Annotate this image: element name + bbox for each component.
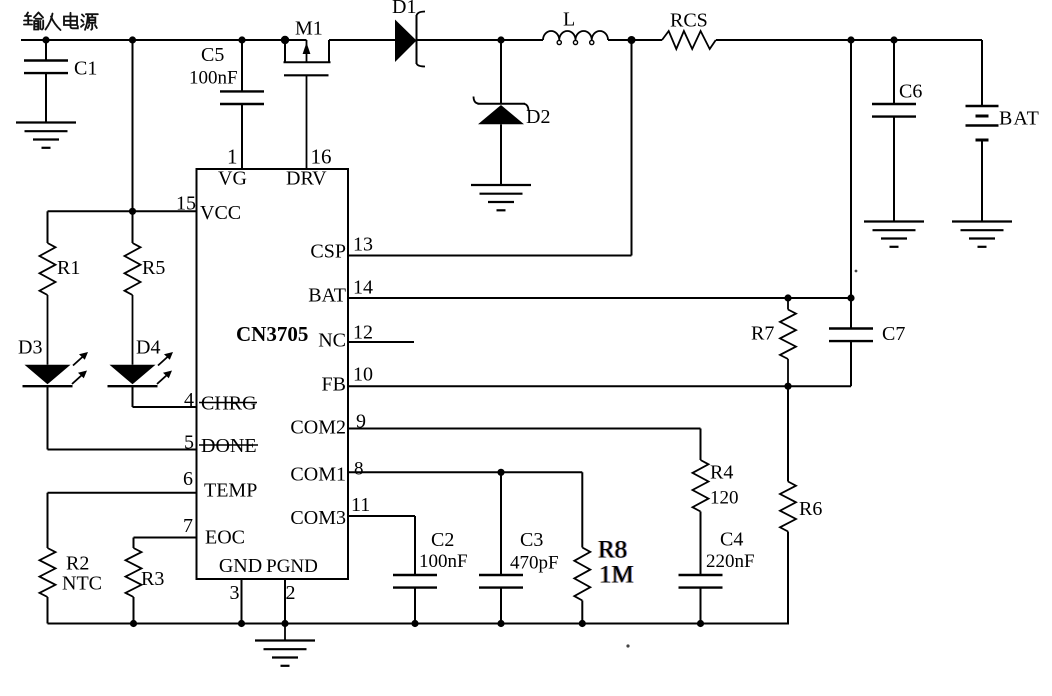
node: R8 on rail (579, 620, 586, 627)
svg-text:BAT: BAT (308, 285, 346, 307)
ground: main ground symbol below PGND (255, 624, 315, 666)
svg-text:CSP: CSP (310, 241, 346, 263)
wire: CSP pin 13 to sense node (348, 40, 632, 256)
resistor R7 (751, 298, 796, 386)
inductor L (543, 9, 608, 45)
diode D2 (schottky to ground) (474, 40, 551, 185)
svg-text:7: 7 (183, 515, 193, 537)
resistor R1 (40, 211, 81, 364)
net label 输入电源 (input power), drawn strokes (24, 13, 98, 31)
ground for BAT (952, 222, 1012, 247)
svg-text:COM3: COM3 (290, 507, 346, 529)
node: M1 source junction (281, 36, 289, 44)
node: C1 junction (42, 36, 49, 43)
svg-text:D2: D2 (526, 106, 550, 128)
LED D3 (18, 337, 88, 387)
svg-text:14: 14 (353, 277, 373, 299)
svg-text:C4: C4 (720, 529, 743, 551)
svg-text:PGND: PGND (266, 556, 318, 577)
wire: battery node down to BAT pin line (850, 40, 852, 298)
node: C3 on rail (497, 620, 504, 627)
resistor R6 (780, 386, 822, 623)
resistor R5 (125, 211, 166, 364)
svg-text:RCS: RCS (670, 10, 708, 32)
svg-text:8: 8 (354, 459, 364, 480)
node: VCC junction on pin 15 wire (129, 208, 136, 215)
svg-text:C5: C5 (201, 44, 224, 66)
wire: COM2 pin 9 line (348, 428, 701, 430)
node: C3 top junction on COM1 (497, 469, 504, 476)
svg-text:220nF: 220nF (706, 551, 755, 572)
svg-text:D4: D4 (136, 337, 160, 359)
ground for D2 (471, 185, 531, 210)
LED D4 (108, 337, 174, 387)
svg-text:1: 1 (227, 145, 238, 169)
node: R7 bottom / R6 top on FB line (784, 383, 791, 390)
svg-text:16: 16 (311, 145, 332, 169)
svg-text:EOC: EOC (205, 527, 245, 549)
svg-text:R3: R3 (141, 568, 164, 590)
wire: M1 drain to D1 anode (329, 39, 396, 41)
pin 1 VG label (218, 145, 247, 190)
wire: D4 cathode to CHRG pin 4 (133, 386, 197, 407)
svg-text:C1: C1 (74, 58, 97, 80)
svg-text:120: 120 (710, 488, 739, 509)
wire: input rail down to VCC pin 15 (132, 40, 134, 211)
node: BAT wire junction (847, 36, 854, 43)
svg-text:11: 11 (351, 494, 370, 516)
pin 15 VCC label (176, 193, 241, 225)
capacitor C2 100nF (393, 529, 468, 624)
pin 3 GND label (219, 555, 262, 604)
capacitor C6 (872, 40, 922, 222)
pin 8 COM1 label (290, 459, 363, 486)
svg-text:R1: R1 (57, 257, 80, 279)
pin 12 NC label (318, 322, 373, 352)
wire: FB pin 10 line (348, 385, 851, 387)
wire: VCC pin 15 line (48, 210, 197, 212)
svg-text:FB: FB (322, 374, 346, 396)
node: D2 junction (497, 36, 504, 43)
node: R4/C4 on rail (697, 620, 704, 627)
svg-text:C2: C2 (431, 529, 454, 551)
svg-text:M1: M1 (295, 18, 323, 40)
capacitor C5 100nF (189, 40, 264, 169)
svg-text:D1: D1 (392, 0, 416, 18)
wire: ground bottom rail (48, 623, 790, 625)
svg-text:TEMP: TEMP (204, 480, 257, 502)
svg-text:2: 2 (286, 582, 296, 604)
svg-text:GND: GND (219, 555, 262, 577)
node: VCC feed junction (129, 36, 136, 43)
transistor M1 (P-MOSFET) (284, 18, 331, 170)
svg-text:VG: VG (218, 168, 247, 190)
svg-text:R5: R5 (142, 257, 165, 279)
svg-text:10: 10 (353, 364, 373, 386)
node: GND pin on rail (238, 620, 245, 627)
svg-text:DRV: DRV (286, 168, 327, 190)
node: C2 on rail (411, 620, 418, 627)
node: C7 top on BAT line (847, 294, 854, 301)
wire: RCS to battery node (716, 39, 982, 41)
resistor R8 1M (574, 472, 634, 623)
capacitor C3 470pF (479, 472, 559, 623)
wire: BAT pin 14 line (348, 297, 851, 299)
node: PGND pin on rail (281, 620, 288, 627)
svg-text:COM2: COM2 (290, 417, 346, 439)
svg-text:BAT: BAT (999, 108, 1040, 130)
node: C6 junction (890, 36, 897, 43)
svg-text:1M: 1M (599, 562, 634, 589)
svg-text:6: 6 (183, 468, 193, 490)
svg-text:470pF: 470pF (510, 553, 559, 574)
pin 4 CHRG label (active low) (184, 389, 257, 415)
pin 11 COM3 label (290, 494, 370, 529)
pin 2 PGND label (266, 556, 318, 604)
svg-text:VCC: VCC (200, 202, 241, 224)
svg-text:R2: R2 (66, 553, 89, 575)
diode D1 (schottky) (392, 0, 425, 67)
svg-text:R6: R6 (799, 498, 822, 520)
svg-text:3: 3 (230, 582, 240, 604)
svg-text:R7: R7 (751, 323, 774, 345)
pin 13 CSP label (310, 234, 373, 263)
stray mark 1 (855, 270, 858, 273)
resistor R3 on EOC pin 7 (126, 538, 197, 624)
svg-text:100nF: 100nF (419, 551, 468, 572)
svg-text:C7: C7 (882, 323, 905, 345)
svg-text:CN3705: CN3705 (236, 322, 308, 346)
wire: NC pin 12 stub (348, 341, 414, 343)
pin 16 DRV label (286, 145, 332, 190)
node: R3 on rail (130, 620, 137, 627)
wire: D3 cathode to DONE pin 5 (48, 386, 197, 449)
battery BAT (966, 40, 1040, 222)
node: CSP sense junction (628, 36, 636, 44)
wire: COM1 pin 8 line (348, 471, 582, 473)
svg-text:12: 12 (353, 322, 373, 344)
node: C5 junction (238, 36, 245, 43)
wire: COM3 pin 11 line (348, 516, 415, 575)
node: R7 top on BAT line (784, 294, 791, 301)
pin 14 BAT label (308, 277, 373, 307)
svg-text:C6: C6 (899, 81, 922, 103)
pin 7 EOC label (183, 515, 245, 549)
svg-text:NC: NC (318, 330, 346, 352)
svg-text:R4: R4 (710, 462, 733, 484)
stray mark 2 (626, 644, 629, 647)
ground for C6 (864, 222, 924, 247)
capacitor C7 (829, 298, 905, 386)
ground for C1 (16, 123, 76, 148)
wire: GND pin 3 stub (241, 579, 243, 624)
svg-text:CHRG: CHRG (201, 393, 257, 415)
svg-text:NTC: NTC (62, 573, 102, 595)
svg-text:COM1: COM1 (290, 464, 346, 486)
svg-text:100nF: 100nF (189, 68, 238, 89)
svg-text:L: L (563, 9, 575, 31)
resistor R4 120 (693, 429, 739, 576)
resistor R2 (NTC) on TEMP pin 6 (40, 493, 197, 624)
wire: input top rail from source to M1 (21, 39, 307, 41)
pin 9 COM2 label (290, 411, 366, 439)
wire: PGND pin 2 stub (284, 579, 286, 624)
pin 10 FB label (322, 364, 373, 396)
wire: L to RCS through CSP node (608, 39, 662, 41)
pin 5 DONE label (active low) (184, 432, 258, 458)
resistor RCS (current sense) (662, 10, 716, 50)
capacitor C4 220nF (679, 529, 755, 624)
svg-text:C3: C3 (520, 529, 543, 551)
capacitor C1 (24, 40, 97, 123)
wire: D1 cathode to L, through D2 node (417, 39, 543, 41)
svg-text:R8: R8 (598, 537, 627, 564)
svg-text:D3: D3 (18, 337, 42, 359)
svg-text:DONE: DONE (201, 435, 257, 457)
svg-text:13: 13 (353, 234, 373, 256)
pin 6 TEMP label (183, 468, 257, 502)
op-amp U1: IC CN3705 body (197, 169, 349, 579)
